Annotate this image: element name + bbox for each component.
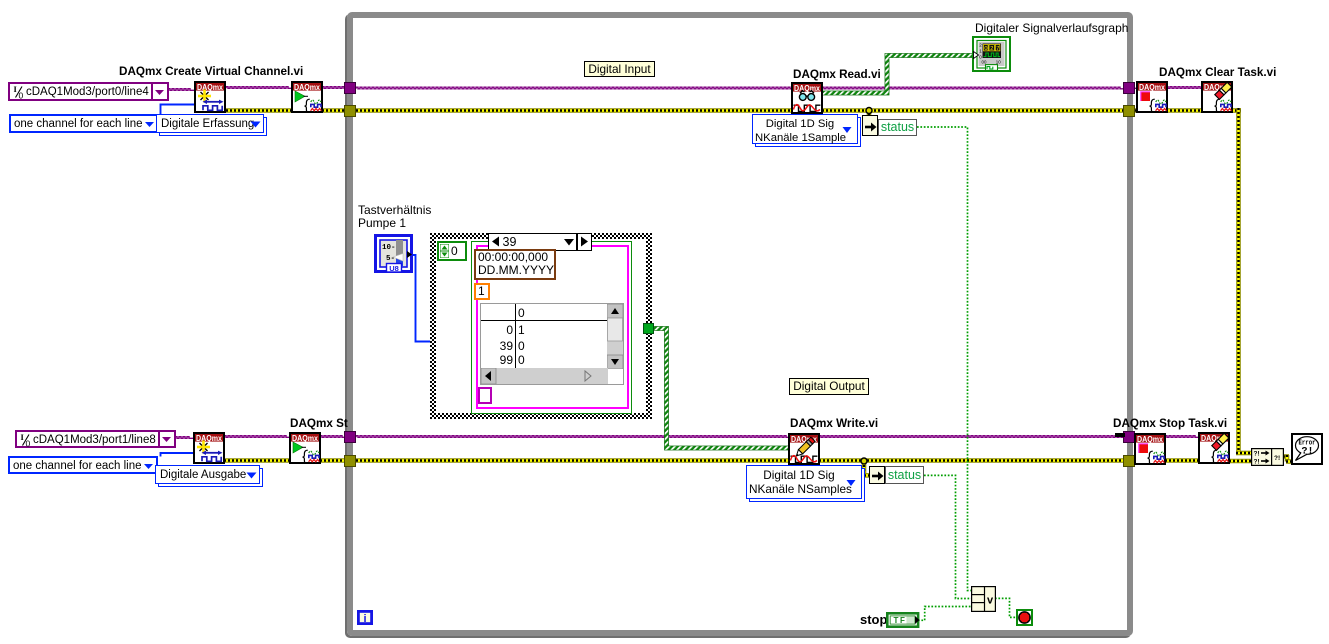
tunnel task DI right	[1123, 82, 1135, 94]
wire	[168, 89, 195, 91]
svg-text:DAQmx: DAQmx	[294, 83, 321, 92]
svg-text:?!: ?!	[1254, 451, 1260, 458]
while loop border	[347, 12, 1133, 636]
wire	[1131, 87, 1138, 89]
wire	[822, 87, 1125, 89]
svg-text:DAQmx: DAQmx	[1139, 83, 1166, 92]
wire	[1165, 458, 1199, 463]
svg-text:7: 7	[996, 46, 999, 52]
svg-text:i: i	[363, 613, 366, 625]
label DAQmx Start Task.vi label (clipped)	[290, 417, 348, 430]
wire	[1286, 459, 1292, 464]
svg-text:10: 10	[996, 60, 1001, 65]
wire	[224, 458, 290, 463]
svg-text:0: 0	[19, 91, 24, 100]
DAQmx Read.vi	[791, 82, 823, 114]
DAQmx Write.vi	[788, 433, 820, 465]
svg-text:I: I	[14, 84, 18, 94]
I/O constant cDAQ1Mod3/port1/line8	[15, 430, 176, 448]
wire	[1131, 108, 1138, 113]
digital waveform constant border	[430, 233, 652, 419]
label Tastverhältnis Pumpe 1 label	[358, 204, 431, 230]
svg-text:DAQmx: DAQmx	[197, 83, 224, 92]
wire	[175, 437, 194, 439]
ring constant one channel for each line (DI)	[9, 114, 159, 133]
DAQmx Create Virtual Channel (DI)	[194, 81, 226, 113]
digital data table	[480, 303, 624, 385]
svg-text:DAQmx: DAQmx	[794, 84, 821, 93]
wire	[822, 56, 974, 94]
wire	[864, 473, 870, 478]
loop condition terminal	[1016, 609, 1033, 626]
wire	[161, 453, 195, 457]
dt constant 1	[474, 283, 490, 301]
wire	[356, 108, 792, 113]
DAQmx Stop Task.vi	[1134, 433, 1166, 465]
wire	[924, 475, 971, 598]
compound arithmetic OR	[971, 586, 996, 612]
ring constant one channel for each line (DO)	[8, 456, 158, 474]
svg-text:0: 0	[26, 439, 31, 448]
label DAQmx Clear Task.vi label	[1159, 66, 1276, 79]
wire	[654, 329, 789, 449]
loop iteration terminal i	[357, 610, 373, 625]
wire	[1283, 454, 1289, 459]
wire	[822, 108, 1125, 113]
svg-text:5-: 5-	[386, 255, 395, 263]
wire	[320, 436, 347, 438]
wire junction	[866, 108, 872, 114]
wire	[1236, 451, 1251, 456]
wire	[1236, 108, 1241, 453]
unbundle status (DI)	[862, 115, 878, 136]
tunnel error DO left	[344, 455, 356, 467]
merge errors	[1251, 448, 1284, 466]
polymorphic selector Digital 1D Sig NKanäle NSamples	[749, 468, 865, 502]
svg-text:DAQmx: DAQmx	[196, 434, 223, 443]
enum constant Digitale Erfassung	[159, 117, 267, 136]
array index box	[437, 241, 467, 261]
attribute box	[478, 387, 492, 404]
stop boolean terminal TF	[886, 612, 920, 628]
tunnel task DO right	[1123, 431, 1135, 443]
svg-text:00: 00	[982, 60, 987, 65]
wire	[819, 458, 1125, 463]
svg-text:DAQmx: DAQmx	[292, 434, 319, 443]
unbundle status (DO)	[869, 466, 885, 484]
svg-text:I: I	[21, 432, 25, 442]
polymorphic selector Digital 1D Sig NKanäle 1Sample	[755, 117, 861, 147]
wire	[226, 108, 292, 113]
svg-text:2: 2	[990, 46, 993, 52]
svg-text:DAQmx: DAQmx	[1137, 435, 1164, 444]
digital waveform graph terminal	[972, 36, 1011, 72]
svg-text:?!: ?!	[1274, 455, 1280, 462]
wire	[320, 458, 347, 463]
tunnel error DI right	[1123, 105, 1135, 117]
DAQmx Clear Task (bottom)	[1198, 432, 1230, 464]
wire	[226, 87, 292, 89]
tunnel task DI left	[344, 82, 356, 94]
DAQmx Start Task (DO)	[289, 432, 321, 464]
DAQmx Start Task (DI)	[291, 81, 323, 113]
slider terminal Tastverhältnis Pumpe 1	[374, 234, 413, 273]
wire	[356, 436, 789, 438]
label DAQmx Stop Task.vi label	[1113, 417, 1227, 430]
waveform cluster border	[471, 241, 632, 414]
svg-text:?!: ?!	[1301, 447, 1313, 458]
tunnel task DO left	[344, 431, 356, 443]
DAQmx Stop Task (top right)	[1136, 81, 1168, 113]
free label Digital Output	[789, 378, 869, 395]
sample selector 39	[488, 233, 592, 251]
label Digitaler Signalverlaufsgraph label	[975, 22, 1128, 35]
svg-text:TF: TF	[893, 616, 906, 625]
I/O constant cDAQ1Mod3/port0/line4	[8, 82, 169, 101]
wire	[918, 607, 971, 621]
wire	[1166, 108, 1202, 113]
svg-text:U8: U8	[389, 264, 399, 273]
svg-text:10-: 10-	[382, 244, 396, 252]
wire	[322, 108, 347, 113]
label stop label	[860, 613, 887, 626]
coercion dot ?	[432, 338, 441, 350]
wire	[1165, 436, 1199, 438]
wire	[1229, 459, 1251, 464]
digital waveform output tunnel	[643, 323, 654, 334]
label DAQmx Read.vi label	[793, 68, 881, 81]
breakpoint on task wire	[1115, 433, 1125, 437]
svg-text:?!: ?!	[1254, 459, 1260, 466]
wire	[995, 598, 1016, 617]
label DAQmx Write.vi label	[790, 417, 878, 430]
wire	[356, 458, 789, 463]
wire	[1166, 87, 1202, 89]
DAQmx Clear Task.vi	[1201, 81, 1233, 113]
status label (DO)	[885, 466, 924, 484]
DAQmx Create Virtual Channel (DO)	[193, 432, 225, 464]
wire	[411, 255, 432, 342]
wire	[917, 127, 971, 591]
wire	[862, 461, 867, 476]
wire	[356, 87, 792, 89]
wire	[322, 87, 347, 89]
wire junction	[861, 458, 867, 464]
simple error handler Error?!	[1291, 433, 1323, 465]
t0 timestamp constant	[474, 249, 556, 280]
svg-text:0: 0	[984, 46, 987, 52]
wire	[1285, 455, 1290, 462]
wire	[1231, 108, 1241, 113]
svg-text:v: v	[986, 594, 993, 606]
wire	[161, 105, 196, 115]
label DAQmx Create Virtual Channel.vi label	[119, 65, 303, 78]
wire	[819, 436, 1125, 438]
wire	[867, 110, 872, 117]
enum constant Digitale Ausgabe	[158, 468, 263, 487]
tunnel error DI left	[344, 105, 356, 117]
status label (DI)	[878, 119, 917, 136]
free label Digital Input	[584, 61, 655, 77]
tunnel error DO right	[1123, 455, 1135, 467]
digital data border	[476, 245, 629, 409]
wire	[224, 436, 290, 438]
